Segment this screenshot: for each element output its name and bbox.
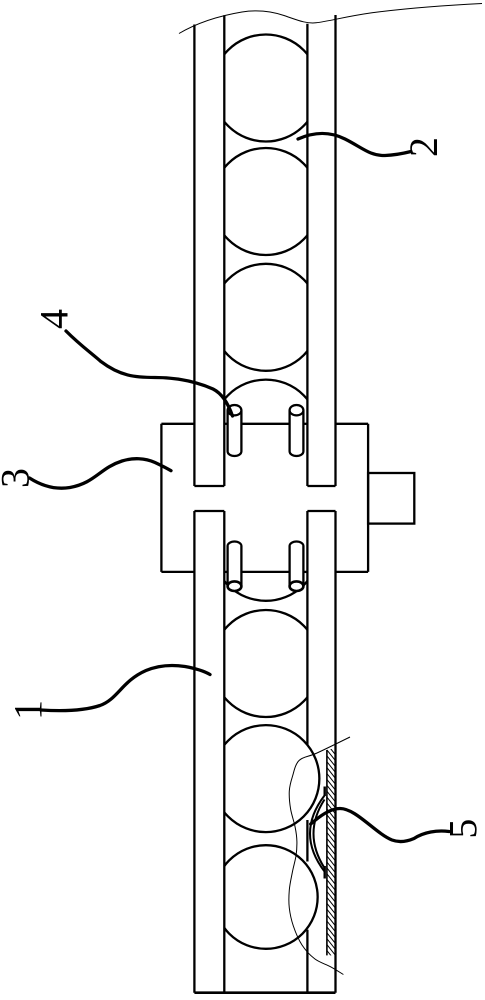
boss on right of block [368, 473, 414, 524]
connector block 3: left edge [160, 424, 162, 572]
section hatching of cut-away wall [327, 744, 336, 961]
leader line for label 2 [298, 133, 411, 155]
ball 4 upper half at block [212, 380, 319, 487]
leader line for label 5 [311, 809, 449, 842]
ball 7 (rolling element) [212, 725, 319, 832]
wire outer-left rail wall [193, 25, 195, 487]
rail bottom end line [194, 991, 335, 994]
ball 1 (rolling element) [212, 35, 319, 142]
pin 4: left bottom pin [228, 542, 242, 587]
wire inner-right rail wall [306, 24, 308, 486]
ball 5 lower half at block [212, 494, 319, 601]
wire outer-right rail wall [334, 15, 336, 486]
freeform broken-out section boundary [289, 737, 350, 975]
svg-text:5: 5 [441, 819, 485, 839]
ball 8 (rolling element) [214, 845, 318, 949]
break line (top) [179, 4, 482, 34]
connector block 3: right edge [367, 424, 369, 572]
wire inner-left rail wall [223, 15, 225, 486]
retainer clip 5: outer arc [310, 796, 325, 872]
leader line for label 4 [66, 331, 233, 416]
svg-text:1: 1 [5, 700, 50, 720]
retainer clip 5: top tab [324, 787, 326, 797]
cut-away strip left edge [326, 750, 328, 955]
leader line for label 3 [30, 459, 172, 489]
connector block 3: top edge [161, 423, 194, 425]
ball 2 (rolling element) [212, 148, 319, 255]
svg-text:3: 3 [0, 468, 38, 488]
leader line for label 1 [41, 666, 210, 711]
pin 4: right top pin [290, 410, 304, 451]
ball 6 (rolling element) [212, 610, 319, 717]
retainer clip 5: inner arc [314, 800, 325, 869]
retainer clip 5: bottom tab [324, 866, 326, 879]
top leg caps [194, 485, 224, 487]
svg-text:4: 4 [32, 309, 77, 329]
svg-text:2: 2 [401, 137, 446, 157]
connector block 3: bottom edge [161, 571, 194, 573]
bottom leg caps [194, 510, 224, 512]
pin 4: right bottom pin [290, 542, 304, 587]
ball 3 (rolling element) [212, 264, 319, 371]
pin 4: left top pin [228, 410, 242, 451]
